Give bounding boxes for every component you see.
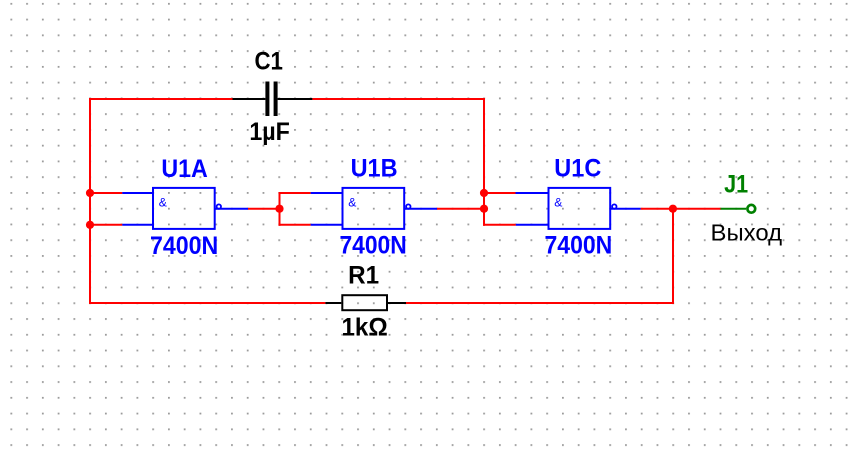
svg-text:7400N: 7400N (150, 232, 218, 260)
svg-text:&: & (348, 195, 356, 209)
svg-text:&: & (554, 195, 562, 209)
svg-text:1µF: 1µF (249, 118, 290, 146)
svg-text:U1A: U1A (161, 155, 208, 183)
svg-text:J1: J1 (724, 170, 748, 198)
svg-text:&: & (159, 195, 167, 209)
svg-text:U1B: U1B (351, 155, 398, 183)
svg-text:U1C: U1C (554, 155, 601, 183)
svg-text:1kΩ: 1kΩ (341, 314, 387, 342)
svg-text:7400N: 7400N (545, 232, 613, 260)
svg-text:R1: R1 (348, 262, 379, 290)
svg-text:Выход: Выход (711, 220, 783, 246)
svg-text:7400N: 7400N (339, 232, 406, 260)
svg-text:C1: C1 (254, 48, 283, 76)
